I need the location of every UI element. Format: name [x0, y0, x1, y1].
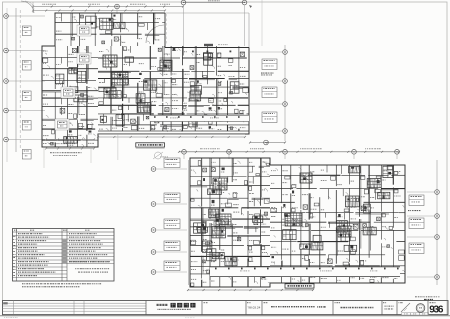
svg-text:'98.03.24: '98.03.24: [248, 305, 261, 309]
svg-text:936: 936: [429, 304, 444, 315]
